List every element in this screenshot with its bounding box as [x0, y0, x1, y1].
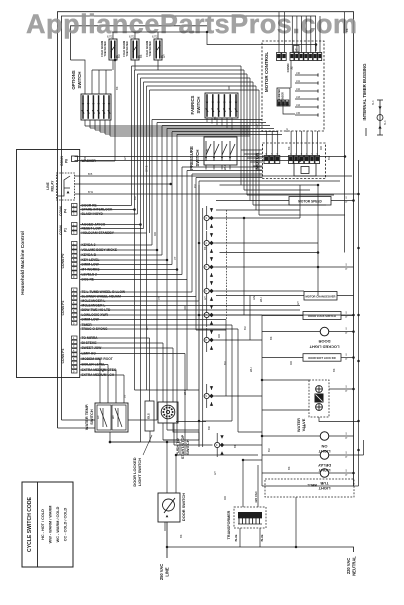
- svg-text:GY: GY: [296, 301, 300, 305]
- svg-text:B W: B W: [88, 190, 94, 194]
- svg-text:BELL: BELL: [307, 483, 317, 487]
- svg-text:P4: P4: [64, 209, 68, 213]
- svg-text:P: P: [346, 473, 348, 477]
- svg-text:BK: BK: [83, 156, 87, 160]
- svg-text:SWITCH: SWITCH: [195, 150, 200, 167]
- svg-text:SWITCH: SWITCH: [196, 97, 201, 114]
- svg-text:J41: J41: [296, 80, 301, 83]
- svg-text:LIGHT SWITCH: LIGHT SWITCH: [137, 458, 142, 486]
- svg-text:OPTIONS: OPTIONS: [71, 70, 76, 89]
- svg-text:PU: PU: [193, 184, 197, 188]
- svg-text:CC - COLD / COLD: CC - COLD / COLD: [64, 507, 68, 541]
- svg-text:P: P: [346, 315, 348, 319]
- svg-text:WC - WARM / COLD: WC - WARM / COLD: [56, 506, 60, 542]
- svg-text:BU: BU: [117, 54, 121, 58]
- svg-text:CYCLE SWITCH CODE: CYCLE SWITCH CODE: [27, 496, 33, 552]
- svg-text:GY: GY: [123, 156, 127, 160]
- svg-text:BK: BK: [203, 246, 207, 250]
- svg-text:BK: BK: [233, 444, 237, 448]
- svg-text:VT: VT: [123, 394, 127, 398]
- svg-text:CONN: CONN: [59, 225, 63, 235]
- svg-text:PRESSURE: PRESSURE: [189, 146, 194, 170]
- svg-text:120 VAC: 120 VAC: [254, 490, 258, 502]
- svg-text:WH: WH: [183, 390, 187, 395]
- svg-text:J44: J44: [296, 104, 301, 107]
- svg-text:B B: B B: [88, 172, 93, 176]
- svg-text:BU: BU: [303, 424, 307, 428]
- svg-text:RD: RD: [319, 146, 323, 150]
- svg-text:8J72: 8J72: [107, 36, 113, 39]
- svg-text:BU: BU: [223, 361, 227, 365]
- svg-text:BK: BK: [115, 86, 119, 90]
- svg-text:BK: BK: [213, 116, 217, 120]
- svg-text:250 VAC: 250 VAC: [159, 564, 164, 580]
- svg-text:BK: BK: [345, 28, 349, 32]
- svg-text:Household Machine Control: Household Machine Control: [20, 231, 26, 295]
- svg-text:COLD WARM: COLD WARM: [122, 41, 126, 57]
- svg-text:HC - HOT / COLD: HC - HOT / COLD: [41, 509, 45, 540]
- svg-text:RD: RD: [223, 496, 227, 500]
- svg-text:BLUE: BLUE: [261, 534, 264, 541]
- svg-text:BU: BU: [133, 196, 137, 200]
- svg-text:TRANSFORMER: TRANSFORMER: [227, 510, 231, 539]
- svg-text:RD: RD: [289, 361, 293, 365]
- svg-text:HC: HC: [98, 415, 100, 419]
- svg-text:WH: WH: [249, 367, 253, 372]
- svg-text:P: P: [346, 267, 348, 271]
- svg-text:WW - WARM / WARM: WW - WARM / WARM: [49, 506, 53, 544]
- svg-text:BU: BU: [327, 156, 331, 160]
- svg-text:NEUTRAL: NEUTRAL: [352, 556, 357, 576]
- svg-text:GN: GN: [252, 296, 256, 300]
- svg-text:BK: BK: [139, 54, 143, 58]
- svg-text:GY: GY: [213, 471, 217, 475]
- svg-text:220 VAC: 220 VAC: [346, 558, 351, 574]
- svg-text:J2: J2: [290, 66, 294, 70]
- svg-text:BK: BK: [332, 368, 336, 372]
- svg-text:DELAY: DELAY: [318, 463, 332, 468]
- svg-text:J42: J42: [296, 88, 301, 91]
- svg-text:CONN: CONN: [59, 206, 63, 216]
- svg-text:MOTOR: MOTOR: [255, 152, 260, 169]
- svg-text:AppliancePartsPros.com: AppliancePartsPros.com: [26, 9, 357, 39]
- svg-text:GY: GY: [255, 124, 259, 128]
- svg-text:CONN P2: CONN P2: [61, 301, 65, 316]
- svg-text:BLK: BLK: [372, 100, 375, 105]
- svg-text:BK: BK: [269, 336, 273, 340]
- svg-text:TUB: TUB: [320, 481, 328, 486]
- svg-text:RD: RD: [217, 334, 221, 338]
- svg-text:ON: ON: [321, 444, 327, 449]
- svg-text:BU: BU: [285, 128, 289, 132]
- svg-text:CONN P3: CONN P3: [61, 349, 65, 364]
- svg-text:LINE: LINE: [165, 567, 170, 577]
- svg-text:GY: GY: [162, 54, 166, 58]
- svg-text:BU: BU: [267, 448, 271, 452]
- svg-text:RD: RD: [153, 232, 157, 236]
- svg-text:8J72: 8J72: [152, 36, 158, 39]
- svg-text:MOTOR CONTROL: MOTOR CONTROL: [264, 52, 269, 92]
- svg-text:P: P: [346, 455, 348, 459]
- svg-text:RELAY: RELAY: [51, 180, 55, 192]
- svg-text:P: P: [346, 331, 348, 335]
- svg-text:GY: GY: [203, 296, 207, 300]
- svg-text:WH: WH: [259, 297, 263, 302]
- svg-text:INTERNAL TIMER BUSSING: INTERNAL TIMER BUSSING: [362, 63, 367, 121]
- svg-text:LIGHT: LIGHT: [318, 486, 331, 491]
- svg-text:P: P: [346, 357, 348, 361]
- svg-text:P: P: [346, 389, 348, 393]
- svg-text:P8: P8: [65, 159, 69, 163]
- svg-text:BK: BK: [287, 146, 291, 150]
- svg-text:FABRICS: FABRICS: [190, 95, 195, 114]
- svg-text:VT: VT: [157, 296, 161, 300]
- svg-text:WC: WC: [113, 415, 115, 419]
- svg-text:P: P: [346, 200, 348, 204]
- svg-text:MOTOR SPEED: MOTOR SPEED: [298, 200, 322, 204]
- svg-text:LINE: LINE: [46, 181, 50, 189]
- svg-text:CONN P0: CONN P0: [61, 254, 65, 269]
- svg-text:J40: J40: [296, 72, 301, 75]
- svg-text:DOOR SOFT LOCK SW: DOOR SOFT LOCK SW: [308, 357, 336, 360]
- svg-text:COLD WARM: COLD WARM: [100, 41, 104, 57]
- svg-text:CONN: CONN: [60, 156, 64, 166]
- svg-text:MOTOR CHANGEOVER: MOTOR CHANGEOVER: [306, 295, 336, 299]
- svg-text:P1: P1: [64, 228, 68, 232]
- svg-text:BU: BU: [243, 326, 247, 330]
- svg-text:DLS: DLS: [147, 413, 151, 419]
- svg-text:BK: BK: [179, 534, 183, 538]
- svg-text:BR: BR: [207, 426, 211, 430]
- svg-text:SWITCH: SWITCH: [77, 72, 82, 89]
- svg-text:8J72: 8J72: [129, 36, 135, 39]
- svg-text:DOOR LOCK SWITCH: DOOR LOCK SWITCH: [308, 314, 336, 318]
- svg-text:RD: RD: [227, 86, 231, 90]
- svg-text:GY: GY: [145, 326, 149, 330]
- svg-text:RD: RD: [183, 306, 187, 310]
- svg-text:DOOR: DOOR: [318, 339, 330, 344]
- svg-text:BU: BU: [101, 368, 105, 372]
- svg-text:LOCKED LIGHT: LOCKED LIGHT: [309, 345, 340, 350]
- svg-text:COLD WARM: COLD WARM: [145, 41, 149, 57]
- svg-text:BLK: BLK: [384, 120, 387, 125]
- svg-text:SWITCH: SWITCH: [89, 409, 94, 425]
- svg-text:P: P: [346, 436, 348, 440]
- svg-text:VT: VT: [173, 256, 177, 260]
- svg-text:BK: BK: [287, 466, 291, 470]
- svg-text:DOOR SWITCH: DOOR SWITCH: [181, 493, 186, 521]
- svg-text:SWITCH: SWITCH: [185, 439, 190, 455]
- svg-text:WH: WH: [223, 165, 227, 170]
- svg-text:BLUE: BLUE: [235, 534, 238, 541]
- svg-text:J43: J43: [296, 96, 301, 99]
- svg-text:J45: J45: [296, 112, 301, 115]
